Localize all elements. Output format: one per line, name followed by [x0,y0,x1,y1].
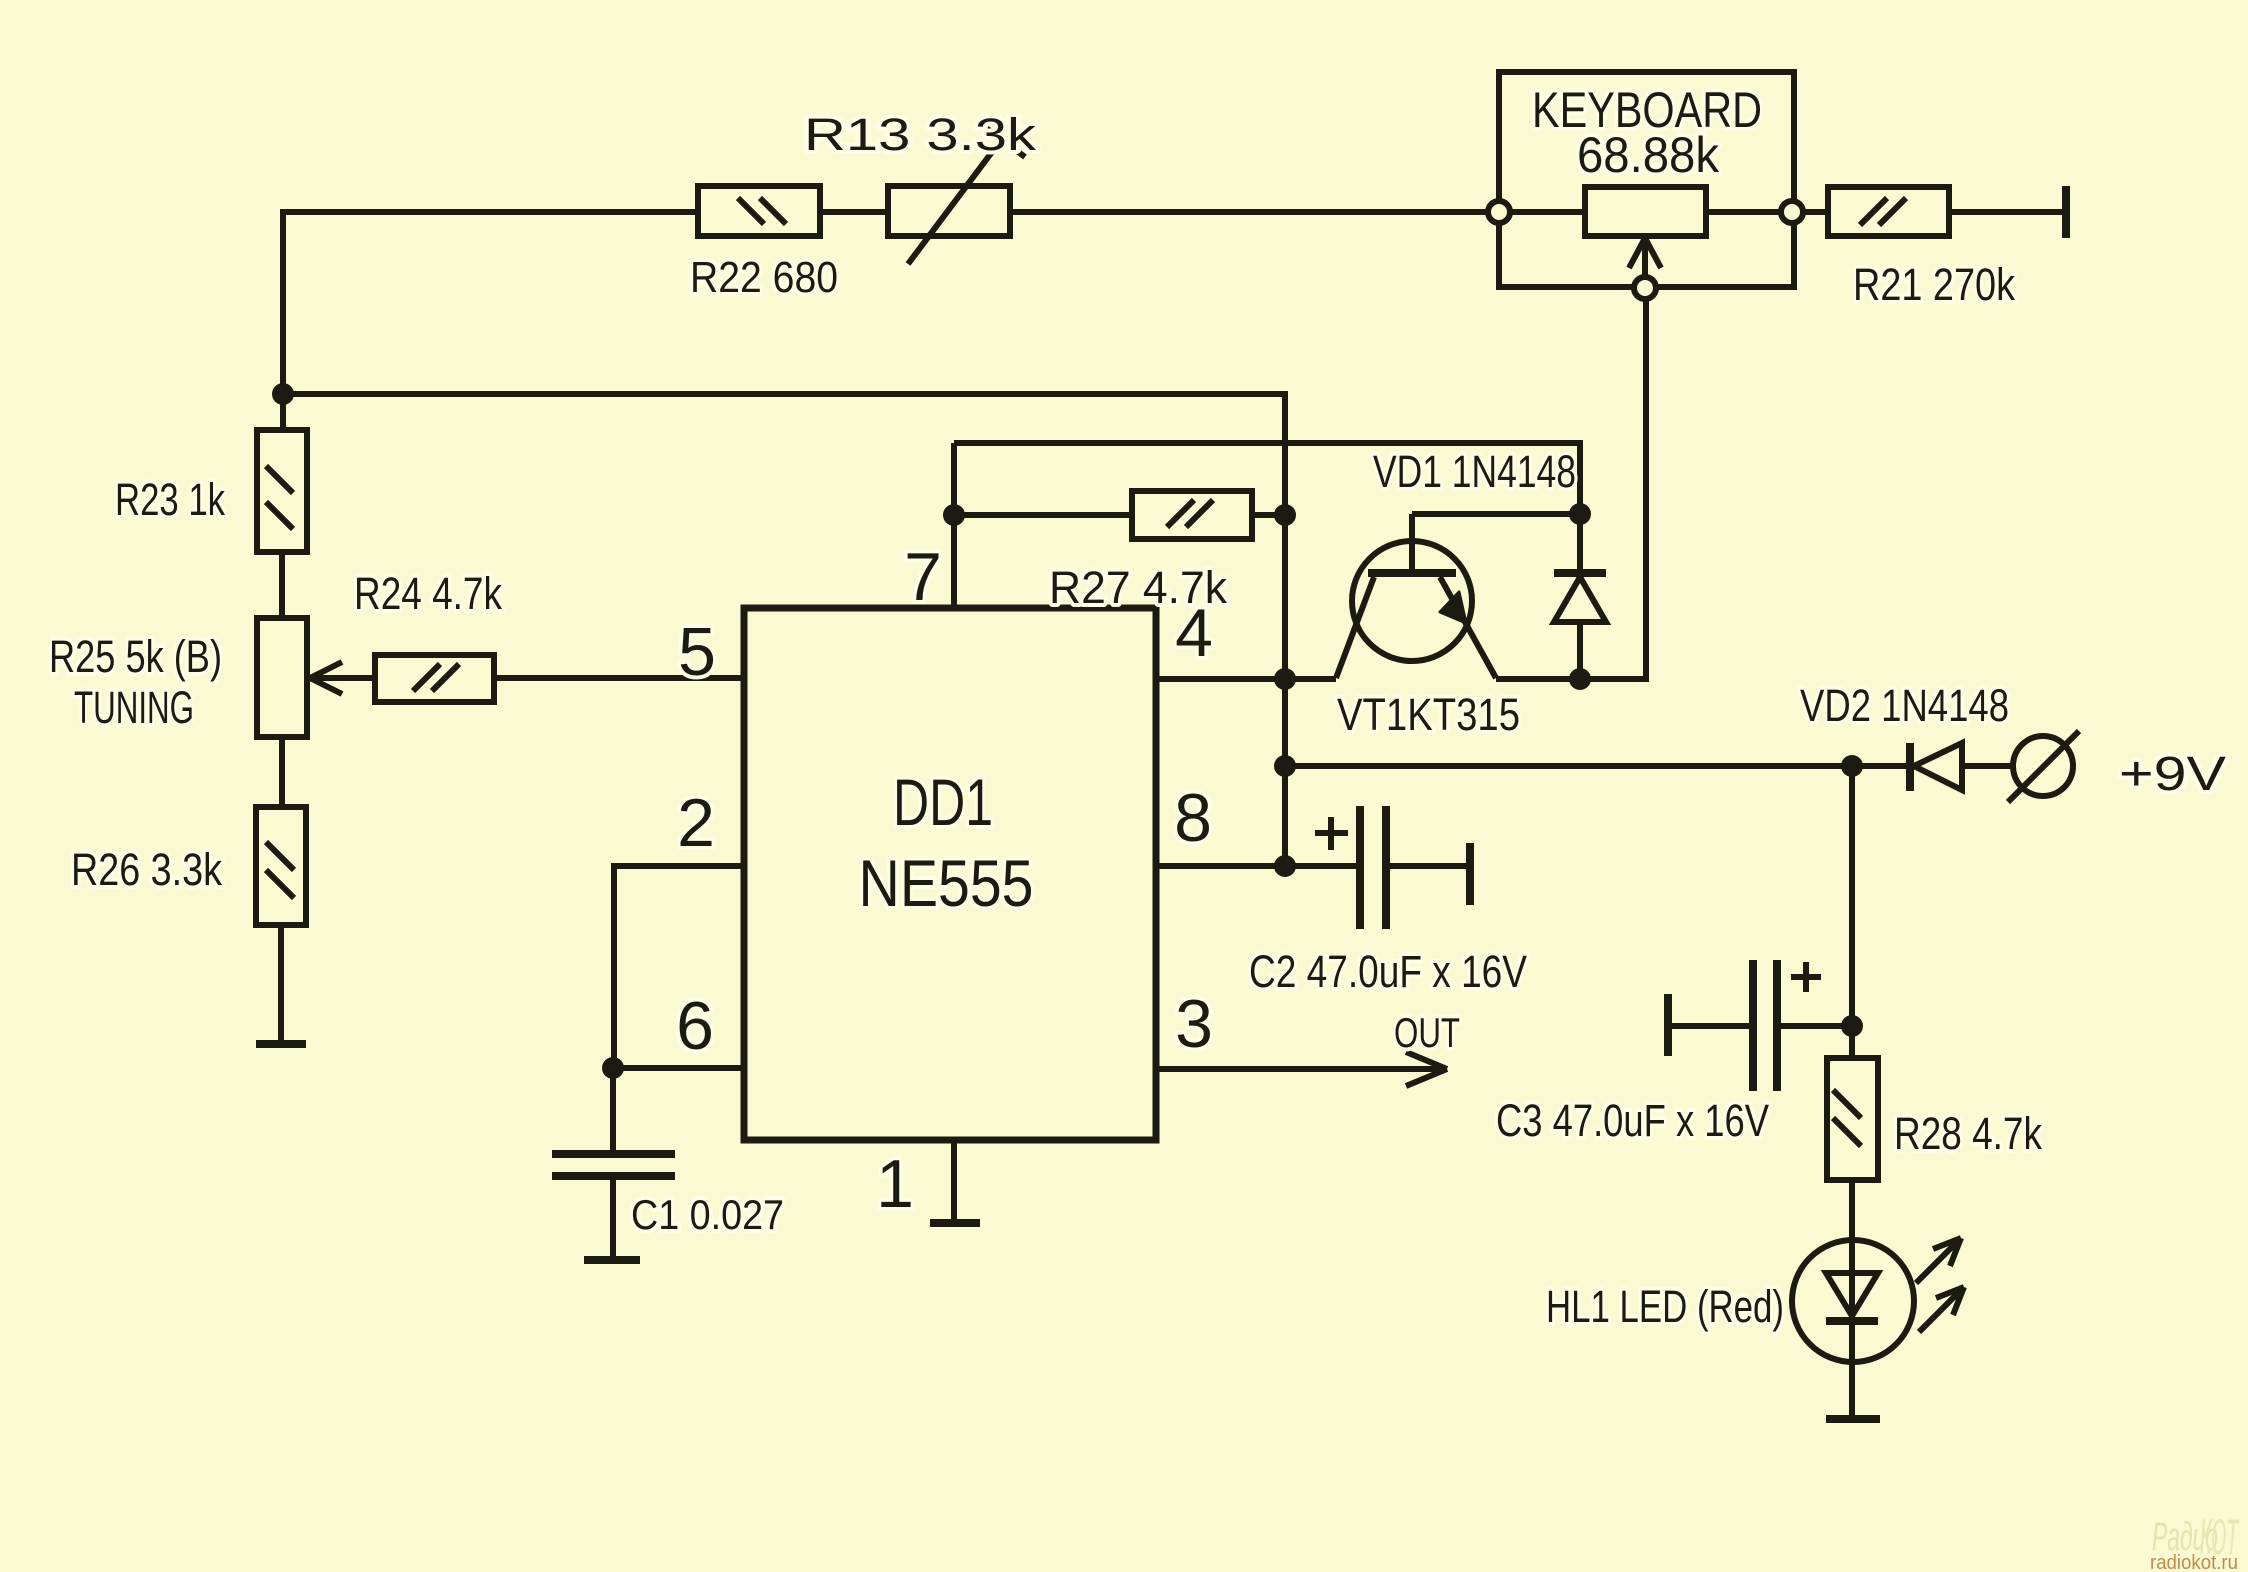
terminal circle keyboard left [1488,201,1510,223]
keyboard wiper arrow [1629,238,1661,277]
svg-text:3: 3 [1175,986,1213,1062]
node VD1 bottom [1569,668,1591,690]
pin 1 stub [876,1140,954,1222]
wire supply row to VD2 [1285,763,1906,769]
diode VD1 [1373,446,1606,679]
svg-text:NE555: NE555 [859,846,1034,920]
node supply VD2 [1841,755,1863,777]
wire R24 to pin5 [494,675,744,681]
wire R25 to R26 [279,737,285,807]
svg-text:R28 4.7k: R28 4.7k [1894,1108,2042,1159]
svg-text:5: 5 [678,614,716,690]
svg-text:8: 8 [1174,780,1212,856]
wire keyboard to R21 [1803,209,1828,215]
node C3 junction [1841,1015,1863,1037]
wire emitter to keyboard wiper riser [1496,299,1646,679]
wire long horizontal to vertical bus x1285 down to pin8 [283,394,1285,866]
svg-text:TUNING: TUNING [74,682,194,733]
svg-text:VD2 1N4148: VD2 1N4148 [1800,680,2009,731]
resistor R24 [354,568,502,702]
svg-text:7: 7 [904,539,942,615]
diode VD2 [1800,680,2013,791]
ground bar under R26 [256,1040,306,1048]
resistor R21 [1828,187,2015,310]
capacitor C2 [1249,806,1527,997]
pin 8 wire [1156,780,1357,866]
svg-text:6: 6 [676,988,714,1064]
node R27 left [943,504,965,526]
svg-text:radiokot.ru: radiokot.ru [2150,1552,2238,1572]
svg-text:C1 0.027: C1 0.027 [631,1191,784,1238]
svg-text:R24 4.7k: R24 4.7k [354,568,502,619]
svg-text:2: 2 [677,785,715,861]
resistor R27 [954,491,1285,613]
svg-text:VD1 1N4148: VD1 1N4148 [1373,446,1576,497]
svg-text:VT1KT315: VT1KT315 [1337,689,1520,740]
svg-text:68.88k: 68.88k [1577,127,1720,183]
wire R26 to ground [278,925,284,1041]
terminal circle keyboard wiper [1634,277,1656,299]
svg-text:R21 270k: R21 270k [1853,259,2015,310]
resistor R22 [690,186,838,302]
svg-text:HL1 LED (Red): HL1 LED (Red) [1546,1281,1784,1332]
transistor VT1 [1336,514,1520,740]
node R27 right [1274,504,1296,526]
svg-text:R25 5k (B): R25 5k (B) [49,631,222,682]
wire R23 to R25 [279,552,285,618]
svg-text:C2 47.0uF x 16V: C2 47.0uF x 16V [1249,946,1527,997]
wire R22 to R13 [820,209,888,215]
ground bar pin1 [930,1219,980,1227]
node pin6 C1 junction [602,1057,624,1079]
pin 6 wire [613,988,744,1068]
svg-text:OUT: OUT [1394,1009,1460,1056]
R25 wiper arrow from R24 [310,662,375,694]
wire R13 to keyboard [1010,209,1488,215]
node pin8 junction [1274,855,1296,877]
resistor R26 [71,807,306,925]
resistor R23 [115,430,307,552]
trimmer resistor R13 [804,109,1037,264]
svg-text:1: 1 [876,1146,914,1222]
supply vertical line to R28 [1849,766,1855,1058]
keyboard block box [1499,72,1794,287]
svg-text:R22 680: R22 680 [690,253,838,302]
svg-text:DD1: DD1 [893,765,993,839]
wire base to VD1 top [1412,511,1580,517]
pin 2 wire [614,785,744,1068]
pin 7 stub [904,443,954,615]
svg-text:R13 3.3k: R13 3.3k [804,109,1037,160]
node pin4 junction [1274,668,1296,690]
terminal circle keyboard right [1781,201,1803,223]
node junction left [272,383,294,405]
pin 3 wire with OUT arrow [1156,986,1460,1086]
pin 5 label [678,614,716,690]
wire pin7 top to VD1 [954,443,1580,514]
node VD1 top [1569,503,1591,525]
svg-text:+9V: +9V [2119,748,2226,801]
node supply left [1274,755,1296,777]
watermark [2150,1509,2239,1572]
wire R28 to LED [1849,1180,1855,1241]
pin 4 wire [1156,595,1336,679]
potentiometer inside keyboard [1510,187,1781,236]
capacitor C3 [1496,960,1852,1146]
wire top-left from corner to R22 and down to R23 [283,212,698,430]
ground bar under C1 [584,1256,640,1264]
wire R21 to terminal [1949,209,2062,215]
svg-text:C3 47.0uF x 16V: C3 47.0uF x 16V [1496,1095,1769,1146]
ground bar under LED [1826,1415,1880,1423]
resistor R28 [1827,1058,2042,1180]
svg-text:R26 3.3k: R26 3.3k [71,844,222,895]
IC DD1 NE555 box [744,608,1156,1140]
terminal bar right [2062,186,2070,238]
svg-text:R23 1k: R23 1k [115,474,225,525]
svg-text:4: 4 [1175,595,1213,671]
capacitor C1 [552,1068,784,1257]
supply connector circle [2008,731,2226,802]
LED HL1 [1546,1238,1964,1416]
potentiometer R25 [49,618,307,737]
